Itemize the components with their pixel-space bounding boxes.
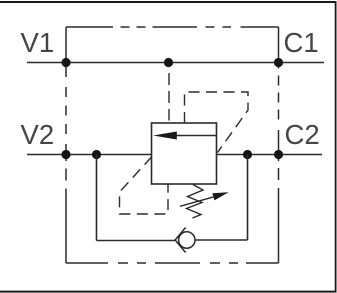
- enclosure dashed boundary top edge: [66, 26, 279, 28]
- junction dot V1 middle: [164, 58, 173, 67]
- adjustment arrow shaft: [180, 197, 214, 206]
- svg-text:C2: C2: [285, 119, 320, 150]
- junction dot V1 left: [61, 58, 70, 67]
- page frame bottom: [0, 291, 337, 293]
- junction dot V2 branch: [92, 150, 101, 159]
- wire from C2 branch dot down: [247, 155, 249, 241]
- wire C2 rail right segment: [217, 154, 323, 156]
- junction dot C2 branch: [243, 150, 252, 159]
- svg-text:V2: V2: [21, 119, 55, 150]
- page frame top: [0, 1, 337, 3]
- page frame right: [335, 2, 337, 292]
- wire check valve to right branch: [195, 239, 248, 241]
- wire V1-C1 rail: [27, 62, 324, 64]
- enclosure dashed boundary bottom edge: [66, 262, 279, 264]
- enclosure dashed boundary left edge: [65, 27, 67, 263]
- junction dot C2: [274, 150, 283, 159]
- check valve circle: [179, 232, 195, 248]
- junction dot C1: [274, 58, 283, 67]
- enclosure dashed boundary right edge: [278, 27, 280, 263]
- check valve seat: [175, 228, 186, 253]
- valve flow arrow: [176, 135, 217, 137]
- pilot dashed drain pentagon lower left: [120, 157, 169, 215]
- spring (adjustable): [187, 185, 204, 219]
- pilot dashed rectangle upper right: [185, 92, 249, 153]
- pilot line dashed from V1 middle dot to valve top: [168, 73, 170, 121]
- wire from V2 branch dot down: [96, 155, 98, 241]
- wire bottom to check valve: [97, 240, 176, 242]
- relief valve body square: [152, 123, 217, 184]
- svg-text:C1: C1: [284, 27, 319, 58]
- wire V2 rail left segment: [27, 154, 152, 156]
- adjustment arrow head: [212, 192, 228, 200]
- svg-text:V1: V1: [21, 27, 55, 58]
- junction dot V2 left: [61, 150, 70, 159]
